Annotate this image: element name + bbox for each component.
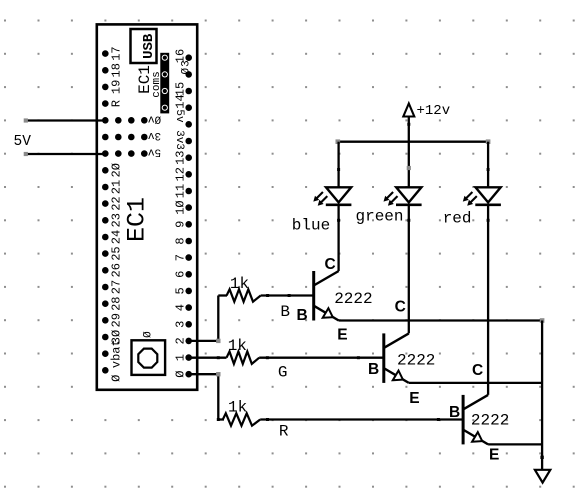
svg-text:25: 25 xyxy=(110,246,124,260)
svg-text:1k: 1k xyxy=(228,337,247,355)
svg-text:24: 24 xyxy=(110,230,124,244)
svg-text:C: C xyxy=(472,362,483,379)
EC1 right pin labels xyxy=(173,49,193,378)
svg-text:E: E xyxy=(489,446,499,463)
resistor R2 1k xyxy=(227,352,359,364)
svg-text:R: R xyxy=(279,423,289,441)
svg-text:Øv: Øv xyxy=(148,112,162,124)
reset button 0 xyxy=(132,331,166,375)
svg-text:2Ø: 2Ø xyxy=(110,163,124,177)
wire green LED branch xyxy=(407,142,411,334)
+12v bus wire xyxy=(336,139,491,144)
wire R1 to Q1 base xyxy=(288,294,314,297)
wire pin0 stub to R3 xyxy=(189,372,221,420)
resistor R3 1k xyxy=(217,413,439,425)
svg-text:B: B xyxy=(280,303,290,321)
svg-text:22: 22 xyxy=(110,196,124,210)
svg-text:15: 15 xyxy=(174,82,188,96)
svg-text:blue: blue xyxy=(292,216,330,234)
EC1 right pin column dots xyxy=(185,54,192,377)
board EC1 outline xyxy=(97,24,197,389)
svg-text:5: 5 xyxy=(174,287,188,294)
svg-text:28: 28 xyxy=(110,296,124,310)
svg-text:C: C xyxy=(325,256,336,273)
svg-text:EC1: EC1 xyxy=(123,197,152,242)
EC1 left pin labels xyxy=(110,46,124,382)
USB connector xyxy=(131,29,158,63)
EC1 left pin column dots xyxy=(102,50,109,373)
svg-text:E: E xyxy=(409,390,419,407)
wire R2 to Q2 base xyxy=(357,356,384,359)
svg-text:1k: 1k xyxy=(230,275,249,293)
wire blue LED branch xyxy=(337,142,340,271)
svg-text:Ø: Ø xyxy=(174,371,188,378)
+12v supply arrow xyxy=(403,103,450,142)
wire red LED branch xyxy=(487,142,490,395)
svg-text:26: 26 xyxy=(110,263,124,277)
svg-text:2: 2 xyxy=(174,337,188,344)
svg-text:+12v: +12v xyxy=(417,103,451,119)
wire 5V to 0v row xyxy=(24,118,106,122)
svg-text:B: B xyxy=(297,307,308,324)
svg-text:21: 21 xyxy=(110,180,124,194)
svg-text:red: red xyxy=(443,210,472,228)
svg-text:E: E xyxy=(337,327,347,344)
svg-text:Ø: Ø xyxy=(181,68,193,75)
wire Q1 emitter to ground bus xyxy=(339,318,545,323)
svg-text:3: 3 xyxy=(174,321,188,328)
LED blue xyxy=(313,187,351,205)
svg-text:18: 18 xyxy=(110,63,124,77)
wire pin2 stub to R1 xyxy=(189,296,221,344)
svg-text:23: 23 xyxy=(110,213,124,227)
svg-text:1k: 1k xyxy=(228,399,247,417)
svg-text:4: 4 xyxy=(174,304,188,311)
resistor R1 1k xyxy=(218,289,289,301)
svg-text:19: 19 xyxy=(110,80,124,94)
svg-text:1Ø: 1Ø xyxy=(174,200,188,214)
svg-text:27: 27 xyxy=(110,280,124,294)
LED red xyxy=(463,187,501,205)
ground xyxy=(535,470,550,483)
transistor Q3 (2N2222) xyxy=(463,395,488,445)
svg-text:1: 1 xyxy=(174,354,188,361)
wire Q2 emitter to ground bus xyxy=(409,382,542,384)
LED green xyxy=(384,187,422,205)
svg-text:vbat: vbat xyxy=(110,339,124,368)
wire pin1 stub to R2 xyxy=(189,356,227,359)
wire R3 to Q3 base xyxy=(437,418,463,421)
coms header connector xyxy=(160,53,169,114)
svg-text:12: 12 xyxy=(174,167,188,181)
svg-text:green: green xyxy=(356,207,404,225)
svg-text:2222: 2222 xyxy=(471,412,509,430)
svg-text:11: 11 xyxy=(174,184,188,198)
wire ground bus vertical xyxy=(541,321,543,470)
svg-text:3v3: 3v3 xyxy=(173,130,185,150)
svg-text:R: R xyxy=(110,100,124,107)
svg-text:USB: USB xyxy=(141,33,157,59)
svg-text:2222: 2222 xyxy=(334,290,372,308)
svg-text:B: B xyxy=(368,361,379,378)
svg-text:3v: 3v xyxy=(148,129,162,141)
wire Q3 emitter to ground bus xyxy=(488,444,544,459)
svg-text:5v: 5v xyxy=(173,109,185,123)
svg-text:coms: coms xyxy=(151,71,163,97)
transistor Q1 (2N2222) xyxy=(314,271,339,321)
svg-text:G: G xyxy=(278,364,288,382)
svg-text:7: 7 xyxy=(174,254,188,261)
svg-text:29: 29 xyxy=(110,313,124,327)
svg-text:Ø: Ø xyxy=(142,331,154,338)
svg-text:6: 6 xyxy=(174,271,188,278)
svg-text:13: 13 xyxy=(174,150,188,164)
svg-text:B: B xyxy=(449,404,460,421)
svg-text:14: 14 xyxy=(174,94,188,108)
svg-text:Ø: Ø xyxy=(110,375,124,382)
svg-text:3: 3 xyxy=(181,60,193,67)
svg-text:5v: 5v xyxy=(148,146,162,158)
EC1 power rows 0v/3v/5v pads xyxy=(115,117,148,157)
EC1 power row labels 0v 3v 5v xyxy=(148,112,162,157)
svg-text:2222: 2222 xyxy=(397,352,435,370)
svg-text:5V: 5V xyxy=(14,134,32,150)
svg-text:8: 8 xyxy=(174,237,188,244)
svg-text:C: C xyxy=(395,299,406,316)
svg-text:17: 17 xyxy=(110,46,124,60)
transistor Q2 (2N2222) xyxy=(384,333,409,383)
wire 5V to 5v row xyxy=(24,152,106,156)
svg-text:9: 9 xyxy=(174,221,188,228)
